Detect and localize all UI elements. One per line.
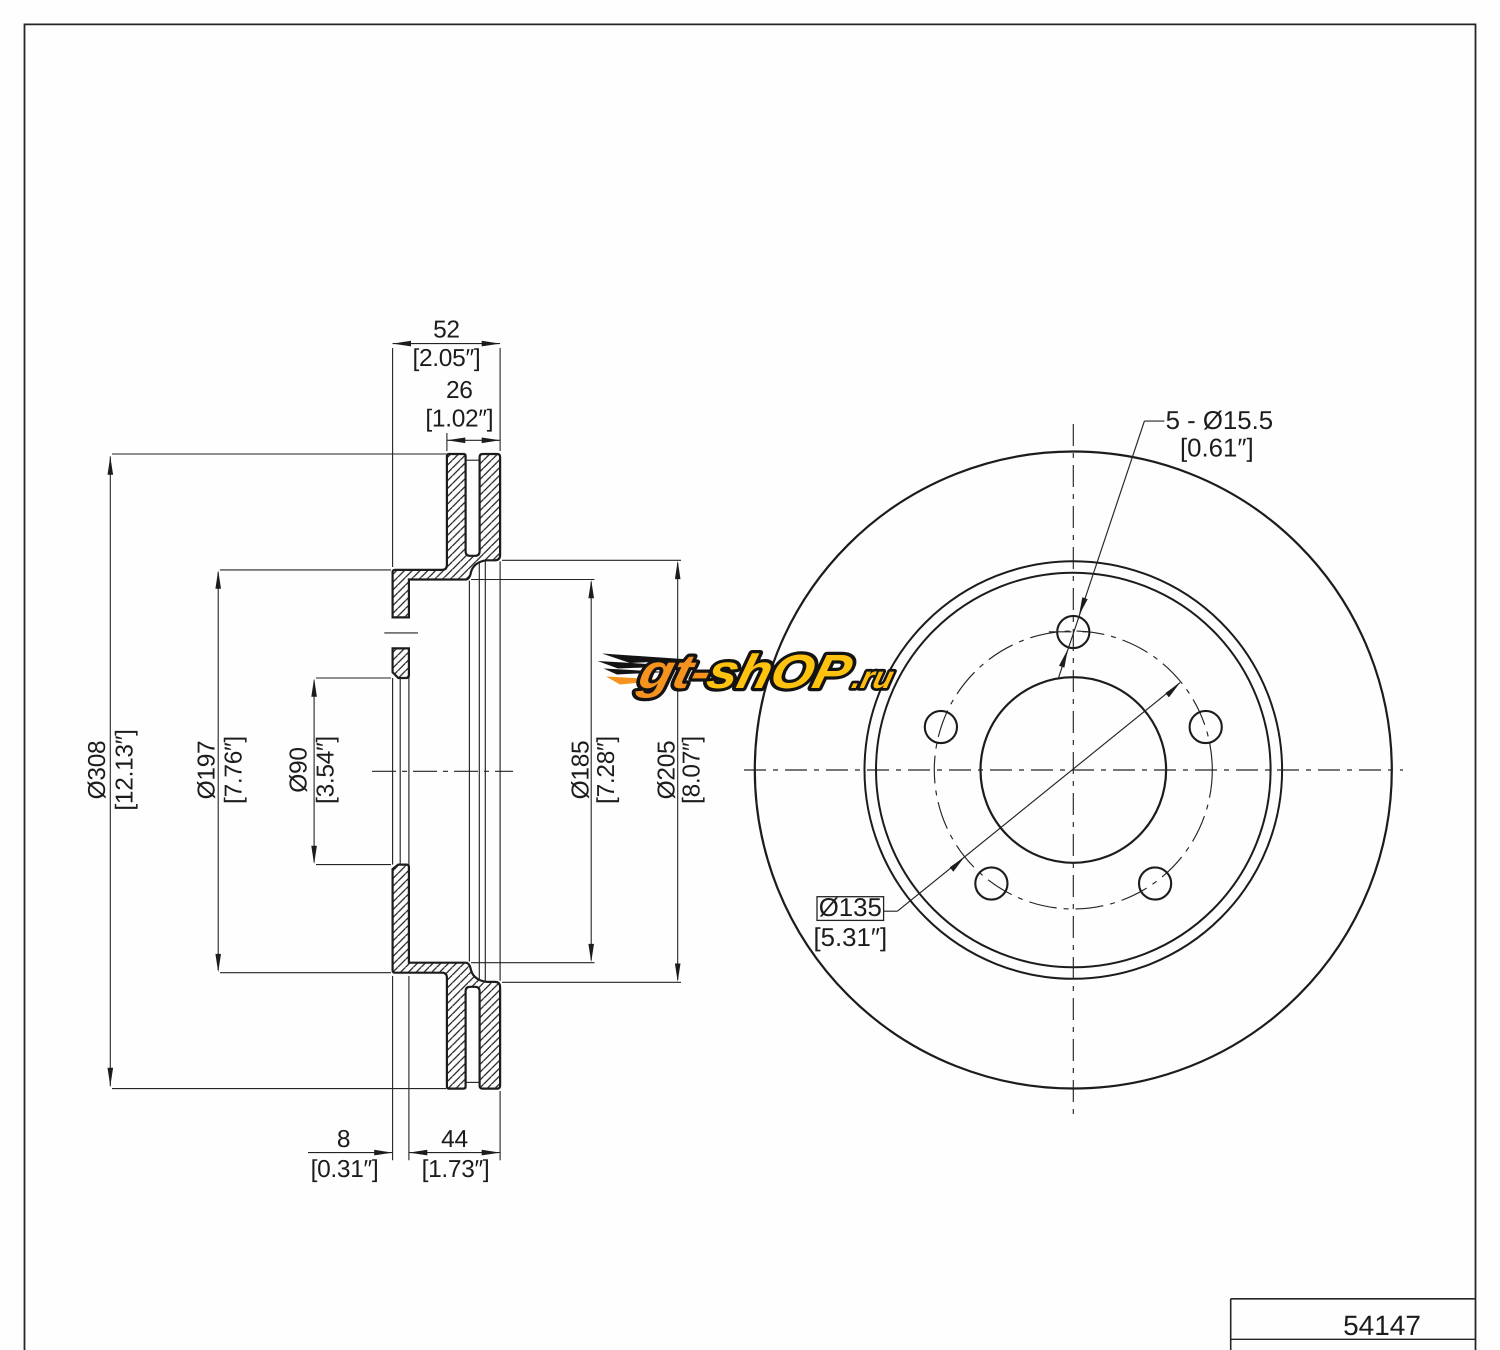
front view horizontal centerline (dash-dot) xyxy=(744,769,1403,771)
svg-text:[7.28″]: [7.28″] xyxy=(593,736,620,804)
centre bore edge (mounting face side) xyxy=(392,678,394,865)
svg-text:[1.73″]: [1.73″] xyxy=(422,1156,490,1183)
gt-shop.ru watermark logo orange swoosh xyxy=(606,677,670,685)
dimension label 52 [2.05"] xyxy=(412,317,480,373)
dimension Ø185 line and extension lines xyxy=(471,580,595,963)
svg-text:Ø185: Ø185 xyxy=(568,741,595,800)
dimension 26 extension line xyxy=(446,433,448,451)
dimension 52 extension lines xyxy=(393,348,501,567)
projected circular edge at hat/plate junction xyxy=(468,581,470,962)
section view axis centerline (dash-dot) xyxy=(372,770,513,772)
dimension label 8 [0.31"] xyxy=(311,1126,379,1183)
front view: bolt circle Ø135 (dash-dot) xyxy=(934,631,1212,909)
dimension Ø90 arrowheads xyxy=(311,678,317,864)
title block box xyxy=(1231,1299,1476,1350)
leader line for 5-Ø15.5 callout xyxy=(1059,421,1165,678)
dimension 26 arrowheads xyxy=(447,438,500,444)
dimension label Ø205 [8.07"] (rotated) xyxy=(654,736,706,804)
dimension label Ø308 [12.13"] (rotated) xyxy=(84,729,139,810)
svg-text:[8.07″]: [8.07″] xyxy=(679,736,706,804)
svg-text:Ø308: Ø308 xyxy=(84,741,111,800)
svg-text:8: 8 xyxy=(337,1126,350,1153)
stud hole left xyxy=(925,711,957,743)
dimension Ø197 arrowheads xyxy=(215,570,221,972)
svg-text:[2.05″]: [2.05″] xyxy=(412,345,480,372)
dimension 26 line xyxy=(447,439,500,441)
centre bore chamfer circle edge xyxy=(399,678,401,865)
svg-text:[5.31″]: [5.31″] xyxy=(813,924,887,952)
svg-text:[7.76″]: [7.76″] xyxy=(221,736,248,804)
svg-text:[12.13″]: [12.13″] xyxy=(112,729,139,810)
dimension 8 arrowhead xyxy=(374,1150,392,1156)
vent slot edge line near top OD xyxy=(466,459,479,461)
svg-text:54147: 54147 xyxy=(1343,1310,1421,1341)
section view: hat wall block between stud hole and centre bore (hatched) xyxy=(393,648,409,678)
dimension label Ø185 [7.28"] (rotated) xyxy=(568,736,621,804)
svg-text:[1.02″]: [1.02″] xyxy=(425,405,493,432)
svg-text:.ru: .ru xyxy=(849,660,898,695)
leader arrowheads at top stud hole xyxy=(1059,597,1088,667)
stud hole bottom-right xyxy=(1139,867,1171,899)
svg-text:26: 26 xyxy=(446,377,473,404)
section view: upper half of rotor (hat wall + both friction plates, hatched) xyxy=(393,454,501,617)
boxed label Ø135 xyxy=(817,897,884,921)
front view: hat outer circle xyxy=(876,573,1271,968)
dimension label 44 [1.73"] xyxy=(422,1126,490,1183)
dimension 8 line and extension lines xyxy=(308,976,409,1160)
stud hole centreline tick in section xyxy=(384,632,418,634)
svg-text:[3.54″]: [3.54″] xyxy=(313,736,340,804)
dimension 44 arrowheads xyxy=(409,1150,500,1156)
dimension 52 arrowheads xyxy=(393,341,501,347)
front view: centre bore circle xyxy=(981,677,1167,863)
dimension Ø205 arrowheads xyxy=(675,561,681,982)
svg-text:shOP: shOP xyxy=(702,646,858,699)
dimension Ø197 line and extension lines xyxy=(218,570,391,973)
gt-shop.ru watermark logo lettering xyxy=(633,646,901,699)
front view: friction face inner circle xyxy=(865,561,1283,979)
Ø135 leader arrowheads on bolt circle xyxy=(950,683,1180,872)
vent slot edge line near bottom OD xyxy=(466,1081,479,1083)
svg-text:52: 52 xyxy=(433,317,460,344)
dimension label Ø90 [3.54"] (rotated) xyxy=(286,736,340,804)
svg-text:Ø90: Ø90 xyxy=(286,747,313,792)
projected circular edge of outboard friction face xyxy=(499,561,501,980)
stud hole bottom-left xyxy=(975,867,1007,899)
dimension Ø308 arrowheads xyxy=(108,456,114,1086)
dimension Ø308 line and extension lines xyxy=(110,454,446,1089)
gt-shop.ru watermark logo speed lines xyxy=(598,654,698,675)
centre bore edge (inner face side) xyxy=(408,678,410,865)
dimension 44 line and extension line xyxy=(409,1091,500,1160)
front view: outer diameter circle xyxy=(755,452,1392,1089)
dimension label 26 [1.02"] xyxy=(425,377,493,432)
svg-text:[0.61″]: [0.61″] xyxy=(1180,435,1254,463)
projected circular chamfer edge of outboard plate xyxy=(484,561,486,980)
dimension Ø90 line and extension lines xyxy=(314,678,391,865)
svg-text:Ø197: Ø197 xyxy=(194,741,221,800)
leader line for Ø135 bolt circle xyxy=(884,683,1181,912)
front view vertical centerline (dash-dot) xyxy=(1072,424,1074,1117)
svg-text:Ø135: Ø135 xyxy=(819,894,882,922)
projected circular edge of outboard plate inner face xyxy=(478,561,480,980)
svg-text:Ø205: Ø205 xyxy=(654,741,681,800)
stud hole right xyxy=(1190,711,1222,743)
dimension Ø205 line and extension lines xyxy=(502,560,681,982)
svg-text:5 - Ø15.5: 5 - Ø15.5 xyxy=(1166,407,1274,435)
dimension label Ø197 [7.76"] (rotated) xyxy=(194,736,248,804)
dimension 52 line xyxy=(393,343,501,345)
svg-text:[0.31″]: [0.31″] xyxy=(311,1156,379,1183)
section view: lower half of rotor (hat wall + both friction plates, hatched) xyxy=(393,865,501,1089)
svg-text:44: 44 xyxy=(441,1126,468,1153)
dimension Ø185 arrowheads xyxy=(588,580,594,962)
centreline tick through top stud hole xyxy=(1049,631,1088,633)
stud hole top xyxy=(1057,616,1089,648)
